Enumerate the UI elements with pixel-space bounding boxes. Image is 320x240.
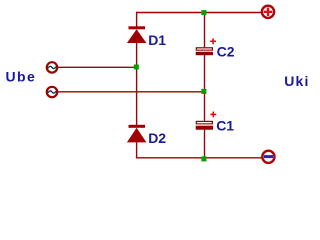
svg-text:D2: D2 [148, 130, 166, 146]
svg-text:D1: D1 [148, 32, 166, 48]
svg-text:Uki: Uki [284, 73, 309, 89]
svg-text:C1: C1 [216, 118, 234, 134]
svg-text:C2: C2 [217, 43, 235, 59]
svg-text:Ube: Ube [6, 69, 37, 85]
